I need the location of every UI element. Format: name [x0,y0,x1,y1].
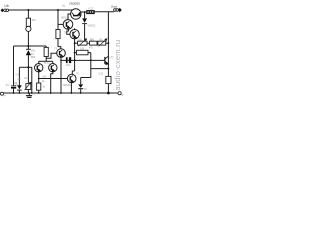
svg-text:audio-cxem.ru: audio-cxem.ru [113,40,122,91]
svg-text:VD: VD [17,79,21,81]
svg-text:BD140: BD140 [63,84,71,87]
svg-text:100: 100 [80,47,85,50]
svg-text:240: 240 [42,76,47,79]
svg-text:Ub: Ub [4,4,8,8]
svg-text:0,22: 0,22 [88,7,93,10]
svg-text:KD522: KD522 [88,25,96,28]
svg-text:Uout: Uout [111,5,118,9]
svg-text:5B6: 5B6 [31,57,36,59]
svg-text:2N3055: 2N3055 [69,2,80,6]
svg-text:KC: KC [31,53,35,56]
svg-text:T3 T4: T3 T4 [43,62,50,65]
svg-text:5m: 5m [6,85,9,87]
svg-text:0,22: 0,22 [99,73,104,76]
svg-text:100: 100 [31,19,36,22]
svg-text:10m: 10m [66,65,71,67]
svg-text:BD139: BD139 [61,17,69,20]
